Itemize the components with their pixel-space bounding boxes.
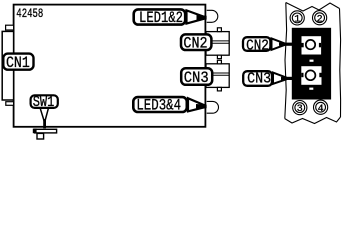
panel bottom torn edge bbox=[285, 117, 341, 124]
LED3&4 indicator bbox=[207, 101, 219, 113]
circled number 4 bbox=[314, 100, 328, 114]
label CN2 (bracket) bbox=[243, 37, 292, 54]
label CN3 (bracket) bbox=[243, 71, 293, 88]
connector CN1 body (left bracket) bbox=[2, 31, 13, 100]
notch on left edge (lower) bbox=[6, 102, 14, 106]
svg-text:CN3: CN3 bbox=[247, 71, 271, 88]
svg-text:3: 3 bbox=[297, 104, 303, 115]
pointer arrow CN3 bracket bbox=[273, 73, 286, 84]
svg-text:LED1&2: LED1&2 bbox=[139, 9, 183, 27]
connector CN2 (board edge) bbox=[206, 28, 229, 59]
svg-text:2: 2 bbox=[317, 14, 323, 25]
svg-text:CN1: CN1 bbox=[6, 54, 30, 72]
svg-text:42458: 42458 bbox=[16, 6, 43, 21]
label CN3 (board) bbox=[181, 68, 212, 87]
circled number 2 bbox=[313, 11, 327, 25]
circled number 3 bbox=[293, 101, 307, 115]
svg-text:CN2: CN2 bbox=[246, 38, 269, 55]
label CN1 bbox=[3, 54, 33, 72]
bracket connector CN3 face bbox=[301, 66, 321, 90]
panel right wavy edge bbox=[340, 9, 341, 118]
svg-text:CN3: CN3 bbox=[184, 69, 209, 87]
panel left wavy edge bbox=[285, 3, 287, 119]
pointer arrow LED1&2 bbox=[187, 10, 204, 23]
connector CN3 (board edge) bbox=[206, 60, 229, 91]
bracket connector CN2 face bbox=[302, 36, 322, 62]
svg-text:4: 4 bbox=[318, 104, 324, 115]
pointer arrow SW1 bbox=[40, 108, 48, 122]
label CN2 (board) bbox=[181, 34, 211, 52]
switch SW1 (bottom edge) bbox=[33, 129, 57, 139]
svg-text:1: 1 bbox=[294, 15, 300, 26]
label LED1&2 bbox=[134, 9, 207, 27]
pointer arrow CN2 bracket bbox=[272, 38, 285, 49]
notch on left edge bbox=[6, 25, 14, 30]
pointer arrow LED3&4 bbox=[188, 98, 204, 111]
svg-text:CN2: CN2 bbox=[183, 34, 207, 52]
svg-text:LED3&4: LED3&4 bbox=[136, 97, 181, 115]
panel top torn edge bbox=[286, 3, 340, 12]
board outline bbox=[14, 5, 206, 127]
bracket panel torn edges bbox=[285, 3, 341, 124]
label SW1 bbox=[31, 94, 58, 128]
circled number 1 bbox=[290, 11, 304, 25]
label LED3&4 bbox=[133, 97, 207, 115]
LED1&2 indicator bbox=[207, 10, 218, 22]
bracket connector block (black) bbox=[292, 28, 331, 100]
